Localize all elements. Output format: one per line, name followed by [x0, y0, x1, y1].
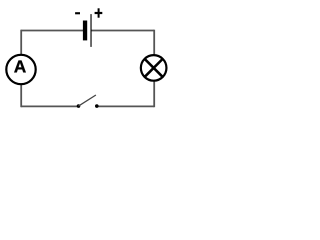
wire bottom-left (to switch): [21, 105, 78, 107]
wire right vertical upper: [153, 30, 155, 56]
label - (negative terminal): [75, 12, 80, 14]
battery B1 positive plate (long thin): [90, 14, 91, 47]
wire bottom-right (from switch): [97, 105, 154, 107]
label + (positive terminal): [95, 8, 103, 17]
wire left vertical lower: [20, 85, 22, 108]
wire right vertical lower: [153, 81, 155, 108]
wire top-right (battery positive to lamp branch): [91, 30, 154, 32]
lamp L1: [141, 55, 167, 81]
wire top-left (battery negative to ammeter branch): [21, 30, 84, 32]
wire left vertical upper: [20, 30, 22, 56]
battery B1 negative plate (short thick): [83, 21, 87, 41]
ammeter A1: [6, 55, 35, 84]
switch S1: [77, 95, 99, 108]
